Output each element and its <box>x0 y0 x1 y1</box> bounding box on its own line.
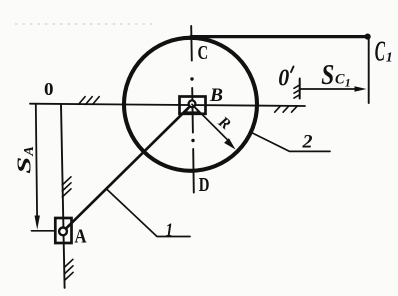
pin A <box>59 228 67 236</box>
wire: top line C to C1 <box>191 35 368 38</box>
radius arrow R <box>192 104 227 139</box>
wheel 2 (circle, center B, radius R) <box>124 38 257 171</box>
S_A bottom tick at level of A <box>32 230 55 232</box>
wire: main horizontal axis O-B line <box>30 104 305 106</box>
faint scan bleed-through at top <box>15 23 155 25</box>
vertical guide for slider A <box>61 104 65 287</box>
svg-text:B: B <box>209 85 223 106</box>
ground hatching near O (above axis) <box>79 97 100 105</box>
label S_A (rotated) <box>14 146 37 174</box>
guide hatching (mid, right of guide) <box>62 177 71 197</box>
guide hatching (below slider A) <box>64 259 73 280</box>
svg-text:0: 0 <box>44 79 54 99</box>
vertical line below C1 <box>368 37 370 103</box>
pin B <box>189 100 196 107</box>
svg-text:0: 0 <box>278 65 289 91</box>
svg-text:C: C <box>198 42 209 64</box>
svg-text:1: 1 <box>386 51 393 66</box>
svg-text:D: D <box>199 174 210 196</box>
slider A block <box>55 218 71 243</box>
ground hatching right end of axis (below axis) <box>275 106 297 112</box>
node C1 dot <box>365 34 371 40</box>
svg-text:1: 1 <box>166 220 174 241</box>
svg-text:1: 1 <box>345 76 351 90</box>
svg-text:A: A <box>75 226 87 248</box>
label R (rotated) <box>214 113 233 133</box>
fixed pivot triangle at B <box>185 104 199 112</box>
svg-text:S: S <box>321 60 334 91</box>
svg-text:S: S <box>14 157 36 174</box>
O' stub hatching <box>294 85 300 98</box>
dimension S_C1 arrow <box>300 88 357 90</box>
vertical center line through wheel (dash-dot) <box>191 26 194 193</box>
svg-text:A: A <box>21 146 36 157</box>
dimension S_A arrow line <box>36 104 37 217</box>
leader line for label 1 <box>106 189 190 237</box>
leader line for label 2 <box>253 133 330 151</box>
svg-text:C: C <box>375 36 385 67</box>
svg-text:2: 2 <box>301 132 313 153</box>
slider block at B (fixed pivot block) <box>180 97 206 114</box>
O' reference stub <box>299 79 301 99</box>
link 1 (rod A-B) <box>63 104 192 231</box>
